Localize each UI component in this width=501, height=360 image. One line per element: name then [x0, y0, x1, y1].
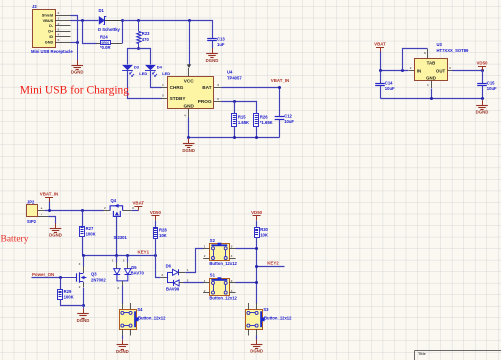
svg-text:2: 2 — [104, 206, 106, 210]
svg-text:4: 4 — [58, 33, 60, 37]
svg-text:D5: D5 — [131, 265, 137, 270]
svg-text:Button_12x12: Button_12x12 — [209, 296, 237, 301]
svg-text:470: 470 — [142, 37, 150, 42]
svg-text:VBAT: VBAT — [374, 41, 386, 46]
svg-text:VD50: VD50 — [477, 60, 489, 65]
svg-text:R23: R23 — [142, 31, 150, 36]
svg-text:2: 2 — [58, 22, 60, 26]
svg-text:LED: LED — [162, 71, 170, 76]
svg-text:PROG: PROG — [198, 99, 212, 104]
svg-text:3: 3 — [449, 66, 451, 70]
svg-text:C12: C12 — [284, 114, 292, 119]
svg-text:C15: C15 — [487, 80, 495, 85]
svg-text:100K: 100K — [64, 295, 74, 300]
svg-text:VD50: VD50 — [251, 210, 263, 215]
svg-text:D+: D+ — [48, 30, 54, 34]
svg-text:D4: D4 — [157, 65, 163, 70]
svg-text:VBAT_IN: VBAT_IN — [271, 78, 289, 83]
svg-text:DGND: DGND — [116, 349, 129, 354]
svg-text:1uF: 1uF — [217, 42, 225, 47]
svg-text:LED: LED — [139, 71, 147, 76]
svg-text:2: 2 — [204, 254, 206, 258]
svg-text:KEY2: KEY2 — [267, 261, 279, 266]
svg-text:2: 2 — [79, 285, 81, 289]
svg-text:3: 3 — [79, 262, 81, 266]
svg-text:3: 3 — [132, 206, 134, 210]
svg-text:VCC: VCC — [184, 79, 195, 84]
svg-text:D Schottky: D Schottky — [98, 27, 121, 32]
svg-text:R29: R29 — [64, 289, 72, 294]
svg-text:DGND: DGND — [71, 70, 84, 75]
svg-text:VBAT: VBAT — [132, 200, 144, 205]
svg-text:S4: S4 — [137, 307, 143, 312]
svg-text:S1: S1 — [210, 273, 216, 278]
svg-text:10K: 10K — [159, 233, 167, 238]
svg-text:Mini USB for Charging: Mini USB for Charging — [20, 84, 130, 96]
svg-text:DGND: DGND — [476, 110, 489, 115]
svg-text:100K: 100K — [86, 231, 96, 236]
svg-text:TP4057: TP4057 — [227, 75, 242, 80]
svg-text:4: 4 — [184, 114, 186, 118]
svg-text:DGND: DGND — [77, 318, 90, 323]
svg-text:U3: U3 — [437, 42, 443, 47]
svg-text:Battery: Battery — [1, 234, 29, 244]
svg-text:1: 1 — [427, 83, 429, 87]
svg-text:1.65K: 1.65K — [238, 120, 249, 125]
svg-text:1: 1 — [204, 279, 206, 283]
svg-text:5: 5 — [58, 38, 60, 42]
svg-text:10uF: 10uF — [385, 86, 395, 91]
svg-text:DGND: DGND — [182, 148, 195, 153]
svg-text:3: 3 — [217, 83, 219, 87]
svg-text:10K: 10K — [260, 233, 268, 238]
svg-text:1: 1 — [112, 258, 114, 262]
svg-text:OUT: OUT — [436, 68, 446, 73]
svg-text:BAV99: BAV99 — [166, 287, 180, 292]
svg-text:IN: IN — [417, 68, 421, 73]
svg-text:SIP2: SIP2 — [27, 219, 37, 224]
svg-text:2: 2 — [123, 258, 125, 262]
svg-text:6: 6 — [217, 97, 219, 101]
svg-text:1: 1 — [204, 245, 206, 249]
svg-text:DGND: DGND — [250, 349, 263, 354]
svg-text:BAT: BAT — [202, 85, 211, 90]
svg-text:Button_12x12: Button_12x12 — [209, 261, 237, 266]
svg-text:GND: GND — [45, 41, 54, 45]
svg-text:JP2: JP2 — [27, 200, 35, 205]
svg-text:Title: Title — [418, 352, 426, 356]
svg-text:1: 1 — [58, 16, 60, 20]
svg-text:3: 3 — [161, 273, 163, 277]
svg-text:4: 4 — [231, 254, 233, 258]
svg-text:HT7XXX_SOT89: HT7XXX_SOT89 — [437, 48, 470, 53]
svg-text:D6: D6 — [166, 263, 172, 268]
svg-text:*1.65K: *1.65K — [260, 120, 273, 125]
svg-text:STDBY: STDBY — [170, 96, 187, 101]
svg-text:3: 3 — [117, 286, 119, 290]
svg-text:Power_ON: Power_ON — [32, 272, 54, 277]
svg-text:KEY1: KEY1 — [138, 250, 150, 255]
svg-text:3: 3 — [231, 245, 233, 249]
svg-text:Button_12x12: Button_12x12 — [264, 315, 292, 320]
svg-text:SI2301: SI2301 — [114, 235, 128, 240]
svg-text:D3: D3 — [134, 65, 140, 70]
svg-text:GND: GND — [426, 75, 436, 80]
svg-text:U4: U4 — [227, 69, 233, 74]
svg-text:R15: R15 — [238, 115, 246, 120]
svg-text:C13: C13 — [217, 36, 225, 41]
svg-text:1: 1 — [187, 268, 189, 272]
svg-text:10uF: 10uF — [487, 86, 497, 91]
svg-text:BAV70: BAV70 — [131, 271, 145, 276]
svg-text:VD50: VD50 — [150, 210, 162, 215]
svg-text:R28: R28 — [159, 227, 167, 232]
svg-text:VBAT_IN: VBAT_IN — [40, 192, 58, 197]
svg-text:R24: R24 — [100, 35, 108, 40]
svg-text:Q4: Q4 — [111, 198, 117, 203]
svg-text:R26: R26 — [260, 115, 268, 120]
svg-text:C14: C14 — [385, 80, 393, 85]
svg-text:R30: R30 — [260, 227, 268, 232]
svg-text:TAB: TAB — [427, 61, 436, 66]
svg-text:10uF: 10uF — [284, 119, 294, 124]
svg-text:CHRG: CHRG — [170, 85, 184, 90]
svg-text:VBUS: VBUS — [43, 19, 54, 23]
svg-text:DGND: DGND — [49, 233, 62, 238]
svg-text:S2: S2 — [210, 238, 216, 243]
svg-text:-: - — [41, 213, 42, 217]
svg-text:2: 2 — [204, 289, 206, 293]
svg-text:Button_12x12: Button_12x12 — [138, 315, 166, 320]
svg-text:Mini USB Receptacle: Mini USB Receptacle — [31, 49, 73, 54]
svg-text:2N7002: 2N7002 — [91, 277, 106, 282]
svg-text:ID: ID — [49, 35, 53, 39]
svg-text:3: 3 — [58, 27, 60, 31]
svg-text:2: 2 — [410, 66, 412, 70]
svg-text:Shield: Shield — [42, 13, 54, 17]
svg-text:Q3: Q3 — [91, 272, 97, 277]
svg-text:2: 2 — [187, 278, 189, 282]
svg-text:GND: GND — [183, 103, 194, 108]
svg-text:+: + — [41, 206, 43, 210]
svg-text:DGND: DGND — [206, 58, 219, 63]
svg-text:S3: S3 — [263, 307, 269, 312]
svg-text:4: 4 — [231, 289, 233, 293]
svg-text:8: 8 — [424, 51, 426, 55]
svg-text:1: 1 — [162, 83, 164, 87]
svg-text:3: 3 — [231, 279, 233, 283]
svg-text:*0.0R: *0.0R — [100, 45, 110, 50]
svg-text:5: 5 — [162, 94, 164, 98]
svg-text:R27: R27 — [86, 226, 94, 231]
svg-text:6: 6 — [58, 11, 60, 15]
svg-text:J2: J2 — [32, 4, 37, 9]
svg-text:D1: D1 — [99, 8, 105, 13]
